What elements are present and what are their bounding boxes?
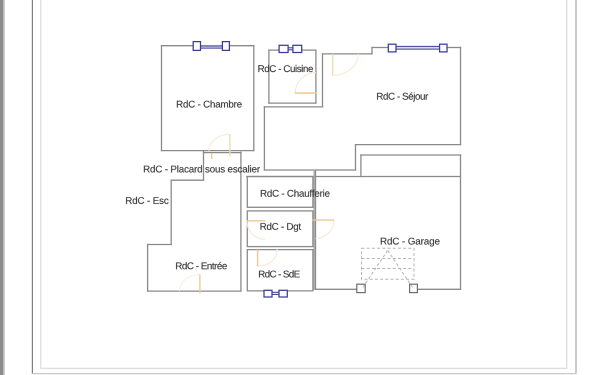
label garage: [381, 237, 440, 246]
garage left wall: [315, 171, 317, 290]
label cuisine: [258, 65, 313, 72]
label sde: [259, 270, 300, 277]
garage bottom wall right: [417, 288, 460, 290]
sejour bottom wall: [356, 144, 461, 146]
strip top wall: [361, 154, 461, 156]
placard top wall: [204, 152, 242, 154]
label chambre: [177, 100, 242, 107]
wall chambre top left segment: [162, 45, 194, 47]
door leaf entree: [199, 275, 201, 294]
garage door dashed rail 1: [362, 258, 415, 260]
garage door posts: [357, 284, 418, 292]
page outer right edge: [575, 0, 577, 374]
wall cuisine left: [268, 50, 270, 103]
entree left wall: [147, 245, 149, 292]
strip left wall: [360, 155, 362, 177]
corridor top wall: [264, 169, 355, 171]
wire placard left wall: [203, 151, 205, 181]
door leaf chambre: [229, 134, 231, 156]
wall chambre left: [161, 46, 163, 151]
esc step wall: [171, 179, 203, 181]
wall cuisine bottom: [269, 102, 316, 104]
entree bottom wall: [148, 290, 241, 292]
esc left wall: [170, 180, 172, 244]
sejour top wall left part: [323, 53, 373, 55]
wall cuisine right: [315, 50, 317, 103]
label dgt: [261, 223, 302, 232]
window sde: [264, 290, 287, 297]
garage right wall: [460, 155, 462, 289]
door leaf cuisine: [295, 92, 317, 94]
hall left wall: [263, 107, 265, 170]
window sejour: [388, 44, 447, 52]
label placard: [144, 165, 260, 172]
garage door dashed symbol: [362, 248, 415, 287]
door leaf dgt left: [247, 220, 266, 222]
door arc sejour: [333, 54, 359, 76]
door arc chambre: [209, 134, 230, 151]
wall chambre right: [253, 46, 255, 151]
room sde box: [247, 250, 313, 291]
garage door dashed swing left leg: [363, 250, 388, 287]
door arc cuisine: [295, 73, 316, 94]
garage door post left: [357, 284, 365, 292]
door arcs (pale): [179, 54, 358, 291]
wall chambre top right segment: [229, 45, 253, 47]
sejour top step: [371, 48, 373, 54]
label esc: [126, 197, 168, 204]
garage bottom wall left: [316, 288, 357, 290]
door arc sde: [258, 249, 278, 266]
door leaf sde: [257, 249, 259, 266]
window chambre: [193, 42, 229, 51]
garage door dashed swing right leg: [388, 250, 413, 287]
left window edge bar: [0, 0, 3, 375]
entree step wall: [148, 244, 172, 246]
door leaves (tan): [230, 54, 333, 157]
sejour top wall right part: [372, 47, 388, 49]
garage door dashed rail 2: [362, 268, 415, 270]
door leaf dgt right: [312, 219, 334, 221]
wall cuisine top right segment: [302, 49, 316, 51]
sejour right wall: [460, 48, 462, 145]
wall chambre bottom: [162, 150, 254, 152]
entree right wall: [240, 152, 242, 291]
window cuisine: [279, 45, 302, 52]
label chaufferie: [261, 190, 330, 197]
label sejour: [377, 92, 428, 101]
page outer left edge: [31, 0, 33, 374]
door arc dgt left: [247, 221, 266, 240]
sejour bottom-left step: [355, 145, 357, 170]
garage door post right: [410, 284, 418, 292]
page outer bottom edge: [32, 373, 576, 375]
wall cavity filler right of boxes: [313, 171, 315, 290]
door arc dgt right: [316, 220, 334, 238]
hall top wall: [264, 106, 322, 108]
garage door dashed outline: [362, 248, 415, 279]
garage top wall: [247, 176, 461, 178]
room chaufferie box: [247, 177, 313, 208]
label entree: [176, 262, 227, 269]
room dgt box: [247, 211, 313, 247]
door leaf placard small: [211, 153, 213, 159]
room Sejour left wall: [322, 54, 324, 107]
door leaf sejour: [332, 54, 334, 76]
door arc entree: [179, 275, 200, 292]
wall cuisine top left segment: [269, 49, 279, 51]
